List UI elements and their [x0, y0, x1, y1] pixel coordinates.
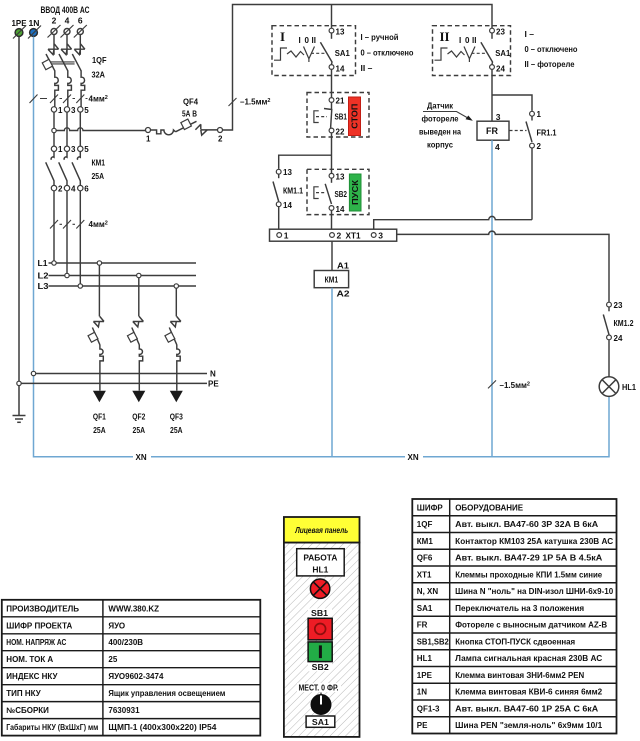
svg-text:4: 4 — [71, 185, 76, 194]
panel label SB1 — [308, 609, 332, 618]
bus L2 — [38, 271, 197, 281]
svg-text:24: 24 — [614, 334, 623, 343]
svg-text:SB1: SB1 — [335, 112, 348, 122]
svg-text:Габариты НКУ (ВхШхГ) мм: Габариты НКУ (ВхШхГ) мм — [6, 723, 98, 732]
svg-text:A1: A1 — [337, 260, 349, 270]
contact KM1.1 — [273, 168, 303, 210]
svg-text:Контактор КМ103 25А катушка 23: Контактор КМ103 25А катушка 230В АС — [455, 537, 613, 546]
svg-text:ИНДЕКС НКУ: ИНДЕКС НКУ — [6, 672, 58, 681]
wire SB2 to XT1 — [331, 211, 333, 230]
svg-text:НОМ. ТОК А: НОМ. ТОК А — [6, 655, 53, 664]
svg-text:N, XN: N, XN — [417, 587, 439, 596]
terminal 4 — [61, 16, 74, 38]
wire FR down blue — [491, 140, 493, 456]
svg-text:I –: I – — [525, 29, 535, 39]
panel label SA1 box — [306, 716, 335, 727]
svg-text:0 – отключено: 0 – отключено — [361, 48, 414, 58]
lamp HL1 — [599, 377, 636, 397]
svg-text:Авт. выкл. ВА47-29 1Р 5А В 4.5: Авт. выкл. ВА47-29 1Р 5А В 4.5кА — [455, 554, 602, 563]
svg-text:ШИФР: ШИФР — [417, 503, 444, 512]
breaker QF1 handle square — [88, 332, 98, 342]
left data table — [2, 600, 261, 736]
svg-text:WWW.380.KZ: WWW.380.KZ — [108, 604, 159, 613]
svg-text:2: 2 — [337, 231, 342, 241]
svg-text:1PE: 1PE — [417, 671, 433, 680]
svg-text:II: II — [472, 36, 476, 45]
svg-text:400/230В: 400/230В — [108, 638, 143, 647]
selector switch SA1 position II box — [433, 26, 511, 76]
svg-text:1: 1 — [537, 110, 542, 119]
wire QF4 to top bus — [223, 5, 493, 131]
breaker 1QF pole 1 — [46, 35, 59, 107]
svg-text:L1: L1 — [38, 258, 48, 268]
cable mark 1.5mm2 on riser — [229, 98, 237, 106]
svg-text:Авт. выкл. ВА47-60 3Р 32А В 6к: Авт. выкл. ВА47-60 3Р 32А В 6кА — [455, 520, 598, 529]
svg-text:КМ1: КМ1 — [417, 537, 434, 546]
breaker 1QF pole 2 — [59, 35, 72, 107]
svg-text:ПРОИЗВОДИТЕЛЬ: ПРОИЗВОДИТЕЛЬ — [6, 604, 79, 613]
wire coil A2 down blue — [331, 288, 333, 457]
breaker QF2 — [132, 278, 144, 391]
svg-text:ЯУО9602-3474: ЯУО9602-3474 — [108, 672, 164, 681]
pushbutton SB1 box — [307, 93, 369, 138]
contactor KM1 pole 1 — [46, 152, 54, 186]
svg-text:SA1: SA1 — [417, 604, 433, 613]
svg-text:II – фотореле: II – фотореле — [525, 59, 575, 69]
bus L1 — [38, 258, 197, 268]
panel label SB2 — [308, 663, 332, 672]
svg-text:N: N — [210, 370, 216, 379]
svg-text:7630931: 7630931 — [108, 706, 140, 715]
svg-text:II: II — [312, 36, 316, 45]
svg-text:21: 21 — [336, 97, 345, 106]
svg-text:ШИФР ПРОЕКТА: ШИФР ПРОЕКТА — [6, 621, 72, 630]
svg-text:ПУСК: ПУСК — [351, 180, 360, 205]
svg-text:SA1: SA1 — [495, 48, 510, 58]
terminal 1QF-3 — [64, 107, 69, 112]
contactor KM1 pole 3 — [72, 152, 80, 186]
svg-text:23: 23 — [496, 28, 505, 37]
svg-text:1N: 1N — [417, 688, 427, 697]
svg-text:МЕСТ. 0 ФР.: МЕСТ. 0 ФР. — [299, 684, 339, 693]
svg-text:1QF: 1QF — [417, 520, 433, 529]
svg-text:Авт. выкл. ВА47-60 1Р 25А С 6к: Авт. выкл. ВА47-60 1Р 25А С 6кА — [455, 704, 598, 713]
svg-text:Датчик: Датчик — [427, 101, 454, 111]
wire SB1 to SB2 — [331, 133, 333, 173]
terminal KM1-6 — [78, 185, 83, 190]
svg-text:ВВОД 400В АС: ВВОД 400В АС — [41, 5, 90, 15]
svg-text:3: 3 — [496, 112, 501, 122]
cable mark 4mm2 top — [30, 95, 88, 104]
svg-text:QF1: QF1 — [93, 412, 106, 422]
bus PE — [21, 382, 207, 384]
svg-text:Клеммы проходные КПИ 1.5мм син: Клеммы проходные КПИ 1.5мм синие — [455, 570, 603, 579]
breaker QF3 — [169, 288, 181, 390]
svg-text:–1.5мм2: –1.5мм2 — [500, 381, 530, 390]
svg-text:24: 24 — [496, 65, 505, 74]
svg-text:4мм2: 4мм2 — [89, 95, 108, 104]
svg-text:32А: 32А — [92, 70, 106, 80]
wire pole3 — [79, 112, 81, 146]
wire top bus to SA1-I — [331, 5, 333, 28]
svg-text:L3: L3 — [38, 281, 49, 291]
svg-text:25А: 25А — [170, 425, 183, 435]
svg-text:4мм2: 4мм2 — [89, 220, 108, 229]
svg-text:5А В: 5А В — [182, 109, 197, 119]
svg-text:HL1: HL1 — [417, 654, 433, 663]
selector switch SA1 position I box — [272, 26, 356, 76]
terminal QF4-1 — [146, 128, 151, 133]
wire KM1.2 to HL1 — [608, 340, 610, 377]
wire KM1.1 to XT1 — [278, 207, 280, 229]
panel title — [284, 517, 360, 543]
svg-text:Ящик управления освещением: Ящик управления освещением — [108, 689, 225, 698]
svg-text:QF4: QF4 — [183, 97, 198, 107]
bus L3 — [38, 281, 197, 291]
svg-text:Шина PEN "земля-ноль" 6х9мм 10: Шина PEN "земля-ноль" 6х9мм 10/1 — [455, 721, 603, 730]
svg-text:ЩМП-1 (400х300х220) IP54: ЩМП-1 (400х300х220) IP54 — [108, 723, 217, 732]
ground — [13, 416, 26, 423]
svg-text:QF1-3: QF1-3 — [417, 704, 440, 713]
svg-text:XN: XN — [136, 453, 147, 462]
svg-text:4: 4 — [65, 16, 70, 26]
svg-text:13: 13 — [336, 172, 345, 181]
svg-text:фотореле: фотореле — [422, 114, 459, 124]
svg-text:Лицевая панель: Лицевая панель — [294, 525, 348, 535]
svg-text:0: 0 — [305, 36, 310, 45]
breaker QF2 handle square — [127, 332, 137, 342]
arrow feeder QF2 — [132, 391, 145, 403]
wire SA1-I to SB1 — [331, 70, 333, 98]
svg-text:L2: L2 — [38, 271, 49, 281]
svg-text:КМ1: КМ1 — [92, 158, 106, 168]
pushbutton SB2 box — [307, 169, 369, 214]
svg-text:13: 13 — [283, 168, 292, 177]
svg-text:3: 3 — [71, 106, 76, 115]
panel selector SA1 knob — [320, 693, 322, 701]
label XN right — [405, 452, 423, 462]
wire pole2 — [66, 112, 68, 146]
svg-text:1: 1 — [58, 145, 63, 154]
svg-text:FR: FR — [417, 621, 428, 630]
contactor KM1 pole 2 — [59, 152, 67, 186]
svg-text:Клемма винтовая ЗНИ-6мм2 PEN: Клемма винтовая ЗНИ-6мм2 PEN — [455, 671, 584, 680]
wire SA1-II to FR — [491, 70, 493, 122]
svg-text:QF2: QF2 — [132, 412, 145, 422]
svg-text:Фотореле с выносным датчиком A: Фотореле с выносным датчиком AZ-B — [455, 621, 607, 630]
svg-text:XT1: XT1 — [417, 570, 432, 579]
svg-text:25А: 25А — [92, 171, 105, 181]
svg-text:PE: PE — [417, 721, 428, 730]
arrow feeder QF1 — [93, 391, 106, 403]
svg-text:корпус: корпус — [427, 140, 453, 150]
svg-text:2: 2 — [52, 16, 57, 26]
panel lamp label box — [297, 549, 345, 576]
wire branch KM1.1 — [279, 155, 332, 169]
svg-text:SB1,SB2: SB1,SB2 — [417, 637, 450, 646]
svg-text:SA1: SA1 — [312, 718, 330, 727]
terminal KM1-5 — [78, 146, 83, 151]
svg-text:Лампа сигнальная красная 230В: Лампа сигнальная красная 230В АС — [455, 654, 602, 663]
breaker 1QF handle square — [42, 59, 52, 69]
terminal QF4-2 — [218, 128, 223, 133]
svg-text:I: I — [280, 29, 285, 44]
wire pole2 to L2 — [66, 191, 68, 273]
svg-text:A2: A2 — [337, 289, 350, 299]
svg-text:Переключатель на 3 положения: Переключатель на 3 положения — [455, 604, 584, 613]
svg-text:SA1: SA1 — [335, 48, 350, 58]
annotation sensor note — [419, 101, 473, 150]
svg-text:14: 14 — [336, 205, 345, 214]
svg-text:6: 6 — [78, 16, 83, 26]
terminal KM1-3 — [64, 146, 69, 151]
svg-text:КМ1: КМ1 — [325, 275, 339, 285]
svg-text:0 – отключено: 0 – отключено — [525, 44, 578, 54]
svg-text:XT1: XT1 — [346, 231, 361, 241]
svg-text:Шина N "ноль" на DIN-изол ШНИ-: Шина N "ноль" на DIN-изол ШНИ-6х9-10 — [455, 587, 614, 596]
right equipment table — [412, 499, 616, 734]
svg-text:выведен на: выведен на — [419, 127, 461, 137]
panel lamp HL1 — [310, 579, 329, 598]
svg-text:НОМ. НАПРЯЖ АС: НОМ. НАПРЯЖ АС — [6, 638, 66, 647]
svg-text:1: 1 — [58, 106, 63, 115]
contact FR1.1 — [510, 110, 557, 151]
terminal KM1-1 — [51, 146, 56, 151]
terminal KM1-4 — [64, 185, 69, 190]
coil KM1 — [314, 260, 350, 298]
svg-text:13: 13 — [336, 28, 345, 37]
wire XT1-2 to coil — [331, 241, 333, 270]
cable mark 4mm2 lower — [50, 220, 84, 229]
svg-text:I – ручной: I – ручной — [361, 32, 399, 42]
svg-text:Кнопка СТОП-ПУСК сдвоенная: Кнопка СТОП-ПУСК сдвоенная — [455, 637, 575, 646]
svg-text:FR1.1: FR1.1 — [537, 128, 557, 138]
wire junction to QF4 with hops — [56, 128, 145, 131]
photo relay FR box — [477, 112, 509, 152]
svg-text:HL1: HL1 — [622, 382, 636, 392]
label ПУСК green — [349, 174, 361, 211]
svg-text:3: 3 — [378, 231, 383, 241]
svg-text:XN: XN — [408, 453, 419, 462]
svg-text:II –: II – — [361, 63, 373, 73]
svg-text:2: 2 — [537, 142, 542, 151]
svg-text:5: 5 — [84, 145, 89, 154]
svg-text:СТОП: СТОП — [350, 103, 359, 128]
svg-text:1: 1 — [284, 231, 289, 241]
svg-text:1N: 1N — [29, 18, 40, 28]
breaker QF3 handle square — [165, 332, 175, 342]
terminal 1QF-1 — [51, 107, 56, 112]
breaker 1QF crossbar — [49, 62, 75, 64]
cable mark 1.5mm2 on FR wire — [488, 380, 496, 388]
svg-text:0: 0 — [465, 36, 470, 45]
panel button SB2 green — [308, 642, 332, 662]
wire pole1 to junction — [53, 112, 55, 128]
svg-text:6: 6 — [84, 185, 89, 194]
svg-text:PE: PE — [208, 380, 219, 389]
wire FR1.1 down to XT1-3 line — [531, 148, 533, 219]
terminal KM1-2 — [51, 185, 56, 190]
svg-text:РАБОТА: РАБОТА — [303, 553, 337, 563]
breaker 1QF pole 3 — [72, 35, 85, 107]
wire PE vertical — [18, 37, 20, 416]
svg-text:2: 2 — [218, 135, 223, 144]
svg-text:ОБОРУДОВАНИЕ: ОБОРУДОВАНИЕ — [455, 503, 524, 512]
wire pole1 to L1 — [53, 191, 55, 261]
svg-text:25: 25 — [108, 655, 117, 664]
svg-text:QF3: QF3 — [170, 412, 183, 422]
svg-text:II: II — [440, 29, 450, 44]
svg-text:23: 23 — [614, 301, 623, 310]
svg-text:25А: 25А — [133, 425, 146, 435]
svg-text:3: 3 — [71, 145, 76, 154]
svg-text:FR: FR — [486, 126, 498, 136]
panel button SB1 red — [308, 618, 332, 640]
svg-text:SB2: SB2 — [312, 663, 330, 672]
svg-text:ЯУО: ЯУО — [108, 621, 125, 630]
svg-text:14: 14 — [283, 201, 292, 210]
node PE bus tap — [17, 381, 21, 385]
label СТОП red — [349, 97, 361, 136]
svg-text:22: 22 — [336, 128, 345, 137]
terminal 2 — [48, 16, 61, 38]
svg-text:4: 4 — [495, 142, 500, 152]
svg-text:КМ1.2: КМ1.2 — [614, 318, 634, 328]
svg-text:ТИП НКУ: ТИП НКУ — [6, 689, 41, 698]
terminal block XT1 — [270, 229, 397, 241]
terminal 1PE — [12, 18, 27, 39]
svg-text:25А: 25А — [93, 425, 106, 435]
panel label МЕСТ. 0 ФР. — [297, 683, 341, 692]
wire pole1 junction down — [53, 133, 55, 146]
front panel — [284, 517, 360, 737]
svg-text:5: 5 — [84, 106, 89, 115]
svg-text:I: I — [459, 36, 461, 45]
svg-text:1QF: 1QF — [92, 55, 107, 65]
breaker QF4 handle square — [181, 119, 191, 129]
svg-text:КМ1.1: КМ1.1 — [283, 186, 303, 196]
wire XT1-3 riser with hop — [374, 216, 532, 229]
breaker QF4 — [151, 121, 218, 135]
wire branch to FR1.1 — [492, 95, 532, 111]
arrow feeder QF3 — [170, 391, 183, 403]
svg-text:–1.5мм2: –1.5мм2 — [240, 98, 270, 107]
wire N blue vertical + XN bus — [34, 37, 610, 457]
svg-text:SB2: SB2 — [335, 189, 348, 199]
node N bus tap — [31, 371, 35, 375]
svg-text:I: I — [299, 36, 301, 45]
svg-text:1: 1 — [146, 135, 151, 144]
terminal 1QF-5 — [78, 107, 83, 112]
wire XT1 to KM1.2 with hop — [397, 231, 609, 302]
wire pole3 to L3 — [79, 191, 81, 284]
breaker QF1 — [92, 265, 104, 390]
svg-text:№СБОРКИ: №СБОРКИ — [6, 706, 49, 715]
label XN left — [133, 452, 151, 462]
svg-text:SB1: SB1 — [311, 609, 329, 618]
svg-text:QF6: QF6 — [417, 554, 433, 563]
svg-text:2: 2 — [58, 185, 63, 194]
svg-text:Клемма винтовая КВИ-6 синяя 6м: Клемма винтовая КВИ-6 синяя 6мм2 — [455, 688, 603, 697]
bus N — [36, 373, 207, 375]
svg-text:HL1: HL1 — [312, 565, 328, 575]
terminal 6 — [74, 16, 87, 38]
contact KM1.2 — [603, 301, 633, 343]
node junction QF4 tap — [52, 128, 56, 132]
svg-text:14: 14 — [336, 65, 345, 74]
terminal 1N — [28, 18, 41, 39]
